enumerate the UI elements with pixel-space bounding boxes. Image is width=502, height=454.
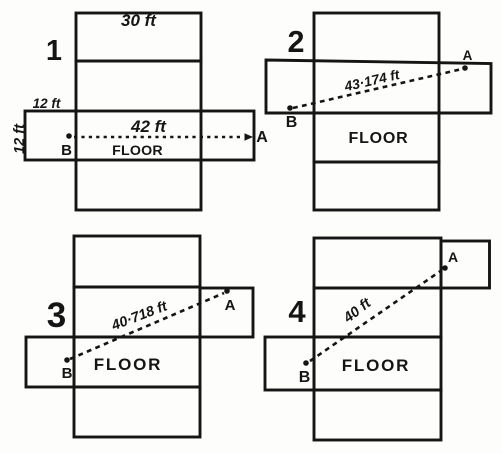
fig4 left strip rectangle <box>265 337 314 390</box>
svg-text:40 ft: 40 ft <box>340 295 375 327</box>
fig2 divider line y=162 <box>314 161 439 164</box>
svg-text:FLOOR: FLOOR <box>349 130 409 147</box>
svg-text:A: A <box>448 249 458 265</box>
fig3 floor strip bottom line <box>74 386 200 389</box>
fig1 arrowhead at A <box>245 133 254 141</box>
svg-text:B: B <box>286 114 298 131</box>
fig3 tall rectangle <box>74 236 200 437</box>
fig4 tall rectangle <box>314 238 441 440</box>
fig2 horizontal strip rectangle <box>266 60 491 113</box>
svg-text:B: B <box>62 365 73 382</box>
svg-text:B: B <box>299 369 311 386</box>
fig3 floor strip left part <box>26 337 74 387</box>
fig4 divider line y=288 <box>314 287 441 290</box>
fig4 divider line y=390 <box>314 389 441 392</box>
svg-text:12 ft: 12 ft <box>12 123 28 154</box>
fig4 dashed path B to A <box>310 270 442 361</box>
fig3 floor strip top line <box>74 336 200 339</box>
svg-text:30 ft: 30 ft <box>121 11 157 30</box>
svg-text:FLOOR: FLOOR <box>342 356 411 375</box>
fig1 horizontal strip rectangle <box>25 111 254 160</box>
svg-text:3: 3 <box>47 296 66 335</box>
svg-text:2: 2 <box>288 25 305 59</box>
svg-text:43·174 ft: 43·174 ft <box>342 67 402 95</box>
fig2 point B <box>287 105 293 111</box>
fig4 divider line y=337 <box>314 336 441 339</box>
fig3 point A <box>224 288 230 294</box>
svg-text:FLOOR: FLOOR <box>112 143 163 159</box>
svg-text:12 ft: 12 ft <box>33 96 61 111</box>
fig1 dashed path B to A <box>74 136 244 138</box>
svg-text:FLOOR: FLOOR <box>94 355 163 374</box>
svg-text:A: A <box>463 48 473 63</box>
svg-text:B: B <box>61 142 72 159</box>
fig4 point A <box>442 265 448 271</box>
fig2 dashed path B to A <box>293 69 462 108</box>
fig4 point B <box>303 360 309 366</box>
fig1 tall rectangle <box>76 13 201 210</box>
fig4 top-right small rectangle <box>441 241 490 288</box>
fig1 point B <box>66 133 72 139</box>
fig1 divider line y=61 <box>76 60 201 63</box>
svg-text:1: 1 <box>46 35 62 67</box>
svg-text:A: A <box>256 129 268 146</box>
fig3 point B <box>64 357 70 363</box>
fig3 dashed path B to A <box>70 293 224 359</box>
svg-text:42 ft: 42 ft <box>130 117 167 136</box>
fig3 divider line y=287 <box>74 286 200 289</box>
svg-text:4: 4 <box>288 294 306 329</box>
fig3 right small rectangle <box>200 288 253 337</box>
svg-text:A: A <box>225 297 236 314</box>
fig2 tall rectangle <box>314 13 439 210</box>
fig2 point A <box>462 65 468 71</box>
